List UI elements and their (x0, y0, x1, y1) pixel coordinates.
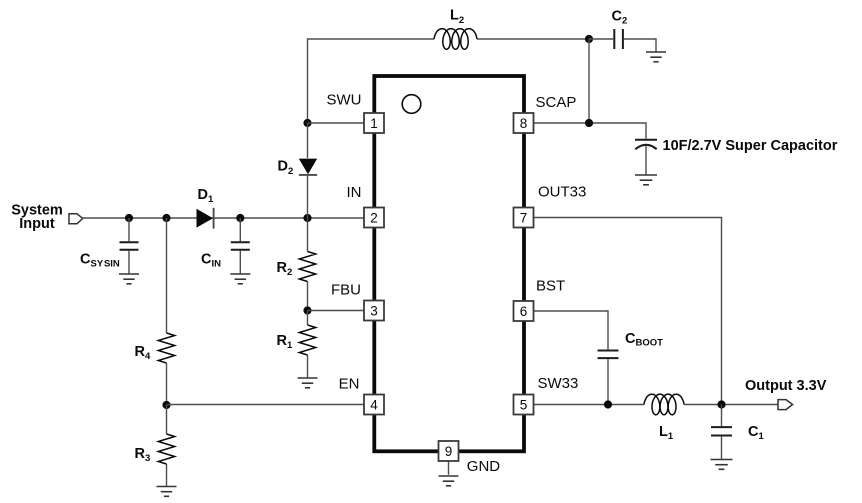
pin 9 box (439, 441, 459, 461)
node output junction (717, 400, 725, 408)
wire L1 to output port (684, 404, 778, 406)
capacitor 10F/2.7V super capacitor (635, 140, 657, 175)
wire R4 branch vertical (166, 218, 168, 333)
node R4 branch junction (162, 214, 170, 222)
wire C2 node down to SCAP line (588, 39, 590, 123)
op-amp U1 IC body (374, 76, 524, 451)
svg-text:SW33: SW33 (538, 375, 579, 392)
capacitor C1 (711, 405, 732, 460)
wire input rail to pin 2 (83, 217, 364, 219)
inductor L1 (644, 394, 684, 415)
svg-text:9: 9 (445, 444, 453, 459)
pin 2 box (364, 208, 384, 228)
ground for super capacitor (635, 175, 657, 185)
svg-text:OUT33: OUT33 (538, 184, 586, 201)
node top-left junction above D2 (303, 119, 311, 127)
svg-text:10F/2.7V Super Capacitor: 10F/2.7V Super Capacitor (663, 138, 838, 154)
resistor R4 (158, 333, 174, 363)
capacitor CSYSIN (120, 218, 139, 274)
svg-text:6: 6 (520, 304, 528, 319)
ground for CSYSIN (119, 274, 139, 284)
svg-text:FBU: FBU (331, 281, 361, 298)
wire EN node to pin 4 (167, 404, 365, 406)
node CSYSIN junction (125, 214, 133, 222)
resistor R1 (299, 311, 315, 379)
svg-text:7: 7 (520, 210, 528, 225)
ground for R1 (298, 378, 318, 388)
pin-1 indicator circle (402, 95, 421, 114)
node SCAP junction (585, 119, 593, 127)
resistor R2 (299, 218, 315, 311)
wire FBU node to pin 3 (308, 310, 365, 312)
svg-text:EN: EN (339, 375, 360, 392)
wire OUT33 pin 7 to output node (534, 218, 722, 405)
ground for C2 (646, 52, 666, 62)
node CIN junction (236, 214, 244, 222)
capacitor C2 (589, 29, 656, 52)
pin 7 box (514, 208, 534, 228)
diode D1 (197, 208, 214, 229)
pin 8 box (514, 113, 534, 133)
svg-text:GND: GND (467, 458, 501, 475)
wire SCAP pin 8 to supercap (534, 123, 647, 139)
wire GND pin 9 stub (448, 461, 450, 475)
ground for C1 (711, 460, 733, 470)
svg-text:8: 8 (520, 116, 528, 131)
resistor R3 (158, 405, 174, 487)
port System Input (69, 214, 83, 224)
wire BST pin 6 to CBOOT (534, 311, 609, 349)
pin 6 box (514, 301, 534, 321)
svg-text:Output 3.3V: Output 3.3V (745, 378, 827, 394)
pin 1 box (364, 113, 384, 133)
svg-text:IN: IN (347, 184, 362, 201)
pin 4 box (364, 395, 384, 415)
svg-text:BST: BST (536, 278, 565, 295)
svg-text:2: 2 (370, 210, 378, 225)
svg-text:1: 1 (370, 116, 378, 131)
ground for pin 9 (439, 476, 459, 486)
svg-text:5: 5 (520, 397, 528, 412)
port Output 3.3V (778, 400, 793, 410)
diode D2 (299, 123, 317, 218)
node C2 junction on top rail (585, 35, 593, 43)
svg-text:4: 4 (370, 397, 378, 412)
ground for CIN (230, 274, 250, 284)
wire R4 to EN node (166, 363, 168, 405)
capacitor CBOOT (598, 351, 619, 405)
inductor L2 (434, 29, 477, 50)
node EN junction (162, 401, 170, 409)
wire SWU node to pin 1 (308, 122, 365, 124)
svg-text:SCAP: SCAP (536, 94, 577, 111)
svg-text:SWU: SWU (327, 92, 362, 109)
svg-text:Input: Input (19, 216, 55, 232)
capacitor CIN (231, 218, 250, 274)
wire SW33 pin 5 to L1 (534, 404, 645, 406)
node FBU junction (303, 306, 311, 314)
svg-text:3: 3 (370, 303, 378, 318)
pin 3 box (364, 301, 384, 321)
ground for R3 (157, 487, 177, 497)
wire top rail from D2 node up and across to C2 node (308, 39, 590, 123)
node IN junction at D2 anode (303, 214, 311, 222)
pin 5 box (514, 395, 534, 415)
node SW33 junction (604, 400, 612, 408)
